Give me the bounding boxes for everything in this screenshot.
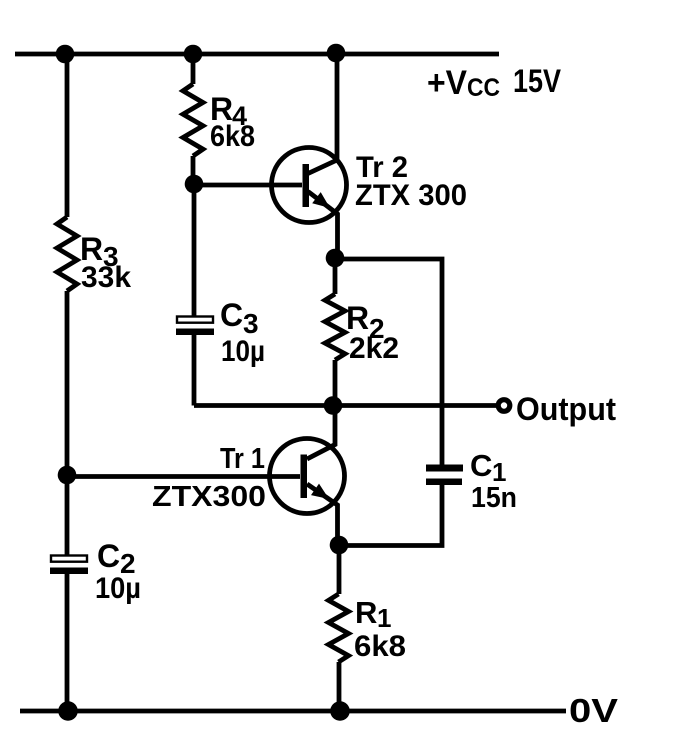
label C2 bbox=[97, 538, 136, 579]
svg-text:C: C bbox=[97, 538, 120, 574]
transistor Tr2 (ZTX300, NPN) bbox=[272, 54, 347, 258]
resistor R1 bbox=[329, 594, 349, 662]
net label +Vcc bbox=[427, 64, 500, 102]
transistor Tr1 (ZTX300, NPN) bbox=[270, 405, 345, 545]
svg-text:6k8: 6k8 bbox=[354, 630, 406, 663]
node: Tr2 emitter / R2 / C1 junction bbox=[326, 249, 345, 268]
svg-text:+V: +V bbox=[427, 64, 467, 102]
node: 0V rail / R1 branch bbox=[330, 701, 350, 721]
node: top rail / R4 branch junction bbox=[184, 45, 203, 64]
capacitor C1 bbox=[426, 465, 463, 486]
wire: R1 bottom to 0V rail bbox=[337, 662, 342, 711]
wire: emitter node down to R2 bbox=[333, 258, 338, 294]
svg-text:Output: Output bbox=[516, 391, 616, 427]
svg-text:1: 1 bbox=[377, 603, 391, 633]
node: top rail / Tr2 collector junction bbox=[327, 44, 346, 63]
node: top rail / R3 branch junction bbox=[56, 45, 75, 64]
svg-text:10µ: 10µ bbox=[221, 335, 265, 368]
wire: emitter node down to R1 bbox=[337, 545, 342, 594]
svg-text:6k8: 6k8 bbox=[210, 120, 255, 153]
wire: output line bbox=[194, 403, 496, 408]
wire: 0V bottom rail bbox=[20, 709, 566, 714]
label C3 bbox=[220, 297, 259, 339]
wire: R3 bottom down to C2 bbox=[65, 291, 70, 556]
wire: Tr1 base lead from left rail bbox=[67, 474, 300, 479]
wire: C3 bottom lead down to output wire bbox=[192, 335, 197, 406]
capacitor C3 (electrolytic, top plate hollow) bbox=[176, 317, 214, 336]
label R4 bbox=[210, 91, 247, 131]
wire: emitter node to C1 branch (top) bbox=[335, 259, 442, 465]
node: 0V rail / C2 branch bbox=[58, 701, 78, 721]
wire: C3 top lead from base node bbox=[192, 184, 197, 317]
svg-text:C: C bbox=[470, 448, 492, 483]
wire: C2 bottom down to 0V rail bbox=[65, 574, 70, 711]
wire: C1 bottom lead to emitter node bbox=[339, 485, 442, 546]
capacitor C2 (electrolytic, top plate hollow) bbox=[50, 556, 88, 575]
svg-text:C: C bbox=[220, 297, 243, 333]
wire: Tr2 base lead bbox=[194, 183, 302, 188]
node: Tr1 emitter / C1 / R1 junction bbox=[330, 536, 349, 555]
label R3 bbox=[80, 231, 119, 272]
wire: +Vcc top supply rail bbox=[15, 52, 499, 57]
svg-text:0V: 0V bbox=[569, 692, 618, 729]
label C1 bbox=[470, 448, 506, 487]
wire: +Vcc down to R4 bbox=[191, 54, 196, 84]
svg-text:2k2: 2k2 bbox=[349, 332, 399, 365]
svg-text:33k: 33k bbox=[81, 261, 131, 294]
svg-text:R: R bbox=[346, 300, 369, 336]
node: output / R2 / Tr1 collector junction bbox=[324, 396, 343, 415]
svg-text:10µ: 10µ bbox=[95, 572, 141, 605]
svg-text:CC: CC bbox=[467, 74, 500, 102]
resistor R4 bbox=[183, 84, 203, 156]
svg-text:ZTX 300: ZTX 300 bbox=[355, 179, 467, 212]
wire: left rail from +Vcc down to R3 bbox=[65, 54, 70, 217]
node: R4 / C3 / Tr2 base junction bbox=[185, 175, 204, 194]
node: left rail / Tr1 base junction bbox=[58, 466, 77, 485]
wire: R4 bottom to Tr2 base node bbox=[191, 156, 196, 184]
svg-text:ZTX300: ZTX300 bbox=[152, 481, 266, 513]
resistor R2 bbox=[325, 294, 345, 360]
svg-text:Tr 1: Tr 1 bbox=[220, 443, 265, 475]
label R2 bbox=[346, 300, 385, 344]
wire: R2 bottom to output node bbox=[333, 360, 338, 405]
svg-text:R: R bbox=[355, 595, 377, 630]
svg-text:15n: 15n bbox=[471, 482, 517, 514]
label R1 bbox=[355, 595, 391, 633]
resistor R3 bbox=[57, 217, 77, 291]
svg-text:15V: 15V bbox=[513, 63, 562, 99]
output terminal (open circle) bbox=[498, 400, 510, 412]
